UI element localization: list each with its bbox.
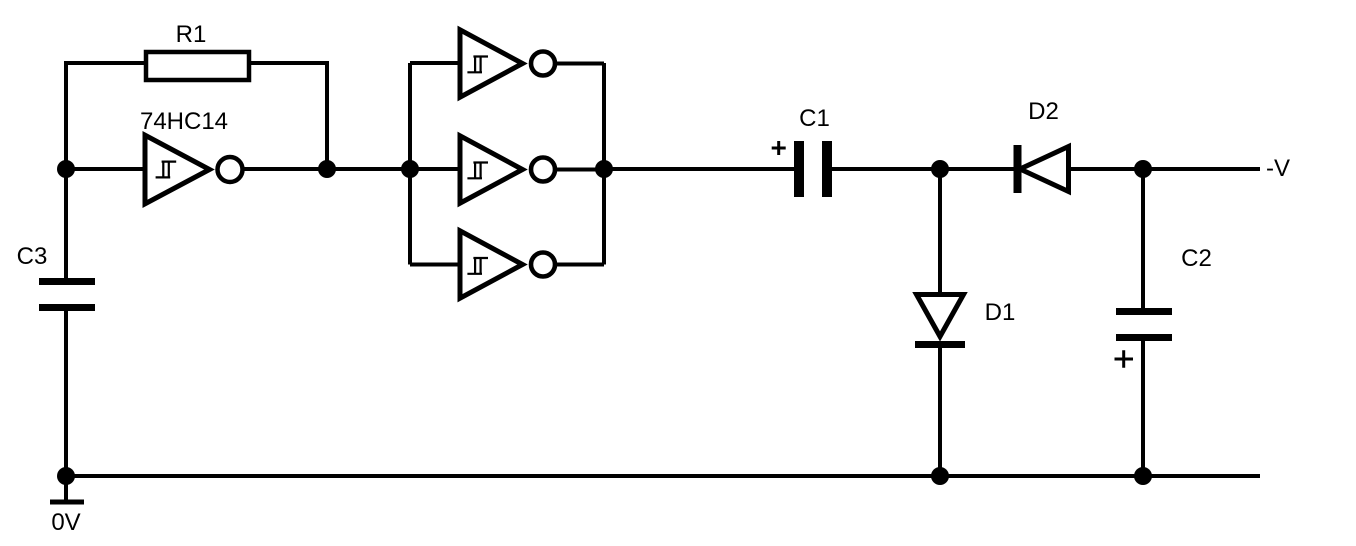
inverter U4 bottom bbox=[460, 231, 555, 298]
wire: C2 to bottom rail bbox=[1141, 340, 1145, 476]
resistor R1 bbox=[146, 52, 249, 80]
wire: main line from left node to U1 input bbox=[66, 167, 146, 171]
hysteresis mark U1 bbox=[156, 161, 177, 179]
capacitor C3 bbox=[39, 278, 95, 311]
node I: C2 bottom junction bbox=[1134, 467, 1152, 485]
wire: feedback top-left vertical + top horizontal to R1 bbox=[66, 63, 146, 169]
wire: bank output to C1 bbox=[604, 167, 794, 171]
svg-text:C3: C3 bbox=[17, 243, 48, 270]
inverter U3 middle bbox=[460, 136, 555, 203]
ground bbox=[50, 476, 84, 505]
node B: R1 feedback junction bbox=[318, 160, 336, 178]
svg-text:D2: D2 bbox=[1028, 98, 1059, 125]
node F: D2/C2/-V junction bbox=[1134, 160, 1152, 178]
wire: C1 to D2 anode node bbox=[832, 167, 1014, 171]
wire: bottom 0V rail bbox=[66, 474, 1260, 478]
wire: -V node to output terminal bbox=[1143, 167, 1260, 171]
svg-text:R1: R1 bbox=[176, 21, 207, 48]
wire: right output bus vertical bbox=[602, 63, 606, 265]
hysteresis mark U3 bbox=[467, 161, 488, 179]
inverter U2 top bbox=[460, 30, 555, 97]
wire: output stub middle row bbox=[556, 168, 604, 172]
node D: bank output junction bbox=[595, 160, 613, 178]
svg-text:0V: 0V bbox=[51, 509, 80, 536]
wire: left input bus vertical bbox=[408, 63, 412, 265]
capacitor C1 bbox=[794, 141, 832, 197]
wire: input stub bottom row bbox=[410, 263, 462, 267]
wire: output stub bottom row bbox=[556, 263, 604, 267]
node E: C1/D1/D2 junction bbox=[931, 160, 949, 178]
diode D1 bbox=[915, 295, 965, 349]
svg-text:-V: -V bbox=[1266, 155, 1290, 182]
wire: -V node down to C2 bbox=[1141, 169, 1145, 309]
node G: ground junction bbox=[57, 467, 75, 485]
wire: D2 to -V node bbox=[1071, 167, 1143, 171]
node H: D1 bottom junction bbox=[931, 467, 949, 485]
wire: left node down to C3 bbox=[64, 169, 68, 279]
wire: input stub middle row bbox=[410, 167, 462, 171]
svg-text:C2: C2 bbox=[1181, 245, 1212, 272]
hysteresis mark U2 bbox=[467, 55, 488, 73]
wire: U1 output to parallel bank input bus bbox=[244, 167, 410, 171]
hysteresis mark U4 bbox=[467, 257, 488, 275]
capacitor C2 bbox=[1116, 308, 1172, 341]
node A: U1 input junction bbox=[57, 160, 75, 178]
inverter U1 74HC14 bbox=[145, 135, 243, 204]
wire: input stub top row bbox=[410, 61, 462, 65]
svg-text:C1: C1 bbox=[799, 105, 830, 132]
svg-text:74HC14: 74HC14 bbox=[140, 108, 228, 135]
label C2 plus bbox=[1115, 350, 1134, 367]
diode D2 bbox=[1014, 145, 1069, 193]
wire: C3 to ground node bbox=[64, 310, 68, 476]
label C1 plus bbox=[772, 141, 786, 155]
wire: R1 right to vertical drop into main line bbox=[249, 63, 327, 169]
svg-text:D1: D1 bbox=[985, 299, 1016, 326]
node C: bank input junction bbox=[401, 160, 419, 178]
wire: node down to D1 bbox=[938, 169, 942, 293]
wire: D1 to bottom rail bbox=[938, 348, 942, 476]
wire: output stub top row bbox=[556, 62, 604, 66]
